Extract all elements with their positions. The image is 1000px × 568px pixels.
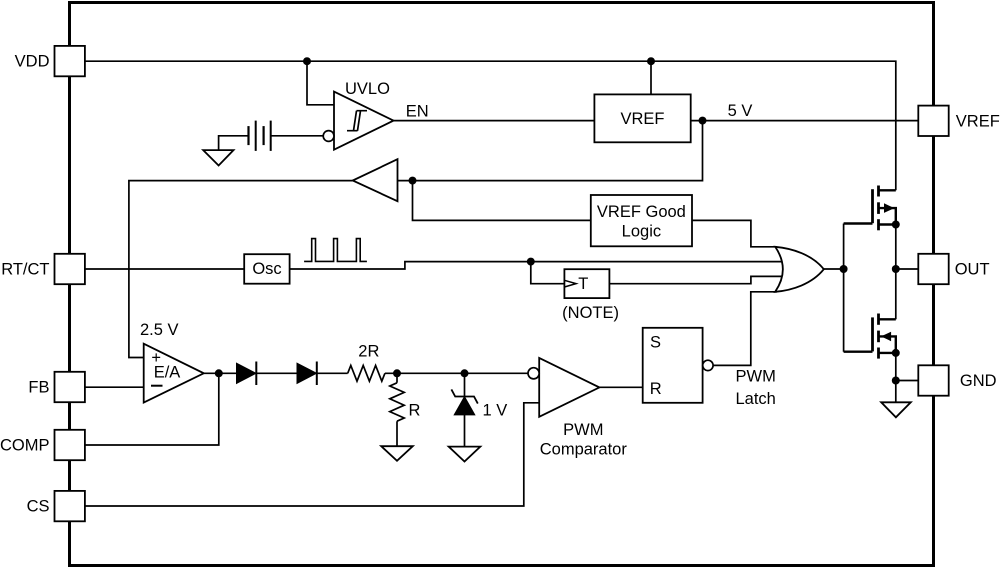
wire OR output to gate line [824, 268, 844, 270]
UVLO input bubble [323, 131, 334, 142]
wire battery to UVLO bubble [271, 135, 323, 137]
transistor Q1 upper MOSFET [844, 186, 896, 231]
wire RT/CT to Osc [85, 268, 244, 270]
wire R to ground [396, 373, 398, 446]
svg-text:R: R [650, 380, 662, 398]
wire diode1 to diode2 [256, 372, 297, 374]
T clock mark [564, 280, 576, 287]
svg-text:EN: EN [406, 103, 429, 121]
wire CS to PWM comparator - input [85, 403, 539, 506]
svg-text:UVLO: UVLO [345, 80, 390, 98]
svg-text:Comparator: Comparator [540, 441, 628, 459]
svg-text:Osc: Osc [252, 260, 281, 278]
svg-text:CS: CS [27, 498, 50, 516]
ground (battery) [203, 150, 233, 165]
pin GND [918, 365, 948, 395]
wire 2R to PWM comparator bubble [385, 372, 528, 374]
pin COMP [55, 430, 85, 460]
battery reference [249, 121, 271, 151]
ground (GND pin) [881, 402, 911, 417]
svg-text:R: R [409, 402, 421, 420]
wire COMP to E/A output [85, 373, 219, 445]
inverter buffer [353, 159, 398, 201]
wire EN UVLO to VREF [394, 120, 595, 122]
wire upper source to OUT node [895, 225, 897, 270]
svg-text:E/A: E/A [154, 364, 181, 382]
ground (R) [381, 446, 413, 461]
svg-text:COMP: COMP [0, 437, 50, 455]
wire latch output to OR gate [713, 292, 777, 366]
wire inverter output to E/A + input [129, 181, 353, 358]
wire E/A output to diode [204, 372, 237, 374]
transistor Q2 lower MOSFET [844, 314, 896, 359]
block T [564, 269, 609, 298]
resistor 2R [348, 365, 385, 381]
wire OUT node to lower drain [895, 269, 897, 319]
svg-text:S: S [650, 334, 661, 352]
svg-text:OUT: OUT [955, 261, 990, 279]
diode D2 [297, 363, 317, 383]
svg-text:RT/CT: RT/CT [1, 261, 49, 279]
svg-text:VREF: VREF [956, 113, 1000, 131]
wire VDD rail [85, 61, 896, 190]
latch output bubble [703, 360, 713, 370]
wire diode2 to 2R [316, 372, 348, 374]
ground (zener) [449, 447, 481, 462]
svg-text:VREF: VREF [620, 110, 664, 128]
diode D1 [237, 363, 257, 383]
wire common gate line [843, 224, 845, 352]
block Osc [244, 254, 289, 284]
wire T output to OR gate [609, 276, 782, 283]
wire Osc output to OR gate [290, 262, 782, 269]
wire inverter input branch to VREF Good Logic [413, 181, 591, 221]
label E/A minus [151, 385, 163, 387]
wire VDD to UVLO input [307, 61, 334, 105]
PWM comparator input bubble [528, 368, 539, 379]
svg-text:(NOTE): (NOTE) [562, 304, 619, 322]
wire PWM comparator output to latch R [599, 386, 642, 388]
resistor R [390, 383, 404, 421]
svg-text:VDD: VDD [15, 53, 50, 71]
wire zener branch [464, 373, 466, 446]
pin CS [55, 491, 85, 521]
wire VDD branch to VREF top [650, 61, 652, 94]
hysteresis glyph [347, 111, 367, 131]
svg-text:PWM: PWM [563, 421, 603, 439]
pin VDD [55, 46, 85, 76]
wire VREF output down to inverter input [398, 121, 703, 181]
wire VREF Good Logic output to OR gate [692, 220, 777, 246]
op-amp UVLO comparator [334, 92, 394, 150]
pin OUT [918, 254, 948, 284]
wire battery to ground [219, 136, 248, 150]
pin RT/CT [55, 254, 85, 284]
svg-text:5 V: 5 V [728, 102, 753, 120]
wire clock branch to T block [531, 262, 565, 284]
block VREF Good Logic [591, 195, 692, 246]
pin FB [55, 372, 85, 402]
svg-text:1 V: 1 V [483, 402, 508, 420]
block VREF [594, 94, 690, 142]
svg-text:2.5 V: 2.5 V [140, 321, 179, 339]
clock waveform glyph [304, 239, 367, 262]
svg-text:GND: GND [960, 372, 997, 390]
pin VREF [918, 106, 948, 136]
wire VREF output 5V to VREF pin [691, 120, 919, 122]
zener diode 1V [454, 397, 475, 415]
wire lower source to GND node [895, 353, 897, 381]
svg-text:2R: 2R [358, 342, 379, 360]
wire GND node to ground symbol [895, 381, 897, 403]
op-amp PWM comparator [539, 358, 599, 417]
svg-text:VREF Good: VREF Good [597, 203, 686, 221]
svg-text:T: T [578, 275, 588, 293]
svg-text:FB: FB [28, 379, 49, 397]
block PWM latch S/R [643, 328, 703, 403]
svg-text:Logic: Logic [622, 222, 661, 240]
OR gate [775, 247, 824, 292]
svg-text:PWM: PWM [736, 367, 776, 385]
wire GND node to pin [896, 380, 919, 382]
wire FB to E/A - input [85, 386, 144, 388]
svg-text:Latch: Latch [736, 390, 776, 408]
wire OUT node to pin [896, 268, 919, 270]
op-amp E/A [144, 344, 204, 403]
